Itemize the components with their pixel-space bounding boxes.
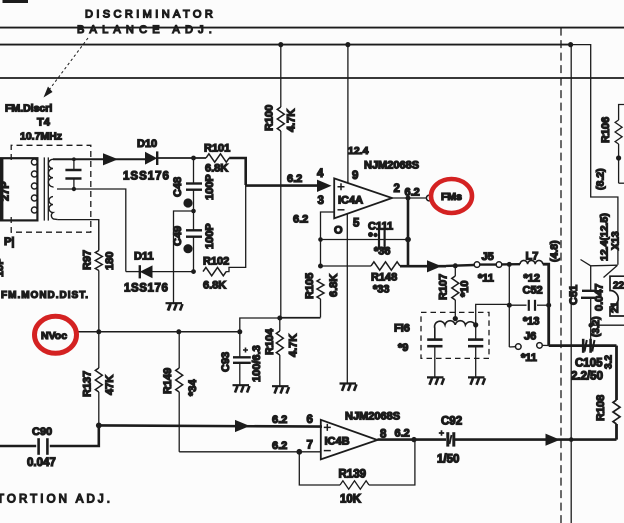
wire node line y=266 (321, 265, 372, 267)
resistor R104 (276, 318, 283, 386)
svg-text:P|: P| (4, 236, 14, 248)
svg-text:47K: 47K (104, 375, 116, 395)
svg-text:C51: C51 (568, 285, 580, 305)
wire node line to arrow (400, 265, 446, 268)
svg-text:*13: *13 (523, 316, 540, 328)
node junction FI6 coil mid (453, 316, 458, 321)
svg-text:100P: 100P (204, 223, 216, 249)
svg-text:D11: D11 (134, 251, 154, 263)
wire stepped rail x=591 to x=618 (571, 45, 618, 265)
svg-text:27P: 27P (0, 181, 12, 201)
transformer core (44, 157, 48, 220)
resistor R102 (203, 267, 226, 275)
svg-text:J6: J6 (524, 331, 536, 343)
wire corner segment near (590,265) (581, 260, 618, 266)
svg-text:6.2: 6.2 (272, 440, 287, 452)
svg-text:C92: C92 (441, 416, 462, 428)
wire winding bottom to R97 column (58, 220, 99, 250)
svg-text:R108: R108 (595, 395, 607, 421)
wire dashed section divider x=561 (560, 28, 562, 523)
node junction C48/C49 (191, 209, 196, 214)
node junction NVoc/C93/jog (237, 329, 242, 334)
resistor R108 (613, 400, 620, 440)
wire feedback line y=239.5 (321, 239, 409, 241)
svg-text:2: 2 (394, 183, 400, 195)
resistor R137 (95, 332, 102, 426)
resistor R101 (206, 154, 229, 162)
wire R101 to bus corner (229, 158, 246, 185)
svg-text:NVoc: NVoc (41, 330, 67, 342)
resistor R107 (452, 266, 459, 319)
svg-text:J5: J5 (482, 251, 494, 263)
wire output column down (407, 198, 410, 266)
node junction output/R139 (411, 437, 416, 442)
svg-text:*12: *12 (524, 273, 541, 285)
node junction R106 bottom (616, 155, 621, 160)
wire D10 to R101 (157, 157, 206, 159)
capacitor C92 electrolytic (439, 430, 454, 446)
wire IC4B output (377, 438, 446, 441)
FMs red ring (431, 179, 472, 213)
wire top rail y=27.6 (0, 27, 624, 29)
resistor R100 column (277, 45, 284, 318)
wire to connector pin 21 y=325.2 (591, 324, 624, 326)
svg-text:C105: C105 (575, 358, 603, 370)
wire IC4A minus input jog (321, 212, 335, 266)
svg-text:IC4A: IC4A (338, 195, 363, 207)
svg-text:(3.2): (3.2) (591, 316, 602, 337)
wire L7 to thick column (543, 264, 549, 345)
wire output bus y=345.6 (549, 344, 617, 347)
svg-text:*11: *11 (521, 352, 537, 364)
wire diagonal to connector (604, 265, 618, 277)
diode D10 (145, 151, 157, 165)
signal arrow to J5 (427, 260, 442, 272)
wire second rail y=44.6 (0, 44, 571, 46)
node junction R100/R104/R105 (277, 316, 282, 321)
node junction R105 top (318, 264, 323, 269)
svg-text:C111: C111 (368, 221, 393, 233)
NVoc red ring (35, 316, 77, 353)
node dot cap bottom (72, 187, 76, 191)
svg-text:R139: R139 (339, 469, 367, 481)
feedback loop R139 (299, 440, 415, 490)
svg-text:22: 22 (613, 281, 624, 292)
svg-text:*9: *9 (398, 342, 408, 354)
svg-text:12.4: 12.4 (348, 145, 369, 157)
svg-text:R106: R106 (600, 117, 612, 143)
capacitor C90 (0, 425, 99, 454)
signal arrow into IC4A (317, 180, 332, 192)
node junction minus/feedback (318, 237, 323, 242)
wire IC4A supply pin 9 from rail (347, 45, 349, 184)
svg-text:C52: C52 (523, 285, 543, 297)
node junction supply top (345, 42, 350, 47)
signal arrow after C92 (546, 434, 561, 446)
svg-text:R102: R102 (203, 256, 229, 268)
node junction NVoc/R97/R137 (96, 329, 101, 334)
svg-text:C48: C48 (172, 177, 184, 197)
svg-text:6.8K: 6.8K (203, 280, 226, 292)
svg-text:FMs: FMs (441, 191, 462, 203)
svg-text:4: 4 (317, 168, 324, 180)
svg-text:100/6.3: 100/6.3 (251, 345, 263, 382)
NVoc wire (77, 331, 240, 333)
node junction minus/R139 (296, 449, 302, 455)
leader arrow from BALANCE ADJ to T4 (44, 38, 89, 98)
svg-text:9: 9 (352, 170, 358, 182)
svg-text:T4: T4 (37, 117, 51, 129)
svg-text:*33: *33 (373, 284, 390, 296)
svg-text:1/50: 1/50 (437, 454, 459, 466)
FI6 right capacitor (468, 325, 483, 377)
svg-text:*34: *34 (187, 379, 199, 396)
FI6 left capacitor (427, 340, 442, 377)
wire J5 node down to C52 node (508, 264, 510, 347)
resistor R148 (371, 262, 400, 270)
svg-text:*36: *36 (374, 246, 391, 258)
svg-text:180: 180 (104, 252, 116, 270)
svg-text:100P: 100P (204, 174, 216, 200)
svg-text:10K: 10K (340, 494, 362, 506)
svg-text:(4.8): (4.8) (549, 240, 561, 262)
resistor R105 (280, 279, 324, 318)
wire NVoc jog up to R104 node (240, 318, 321, 332)
svg-text:BALANCE ADJ.: BALANCE ADJ. (77, 24, 217, 36)
svg-text:7: 7 (307, 440, 313, 452)
svg-text:*11: *11 (478, 273, 494, 285)
svg-text:L7: L7 (526, 251, 539, 263)
wire R102 up to 6.2 bus (226, 185, 246, 272)
capacitor C105 electrolytic on bus (583, 339, 594, 353)
svg-text:R104: R104 (264, 328, 276, 355)
wire vertical rail x=571 (570, 45, 572, 523)
jumper J5 (446, 262, 520, 268)
node junction R107 top (453, 263, 458, 268)
node junction R100 top (278, 42, 283, 47)
svg-text:O: O (334, 225, 343, 237)
node dot at cap top (72, 157, 76, 161)
svg-text:1SS176: 1SS176 (124, 283, 169, 295)
signal arrow T4 to D10 (103, 153, 118, 165)
blob below C48 (183, 198, 192, 207)
svg-text:X13: X13 (610, 231, 622, 250)
svg-text:3.2: 3.2 (604, 355, 615, 369)
capacitor C52 (509, 300, 548, 311)
svg-text:4.7K: 4.7K (288, 334, 300, 357)
transformer secondary winding lower (49, 197, 58, 220)
wire IC4A pin5 down to ground (346, 214, 348, 383)
svg-text:10.7MHz: 10.7MHz (20, 131, 62, 143)
smudge near C111 (368, 232, 378, 237)
svg-text:C93: C93 (220, 352, 232, 372)
svg-text:6.2: 6.2 (272, 414, 287, 426)
FI6 dashed box (421, 312, 489, 358)
svg-text:0.047: 0.047 (594, 283, 606, 311)
svg-text:*10: *10 (459, 280, 471, 297)
transformer secondary winding upper (48, 159, 53, 187)
capacitor C51 (581, 266, 597, 346)
svg-text:FM.MOND.DIST.: FM.MOND.DIST. (1, 290, 89, 301)
svg-text:R149: R149 (162, 368, 174, 394)
svg-text:R100: R100 (264, 105, 276, 131)
resistor R106 (615, 105, 624, 184)
jumper J6 open (509, 343, 548, 350)
signal arrow on plus line (235, 420, 250, 432)
node junction at (570.6,44.6) (568, 42, 573, 47)
transformer T4 dashed boundary (11, 145, 91, 232)
wire T4 top to D10 (53, 158, 145, 160)
svg-text:R137: R137 (82, 371, 94, 397)
node junction rail x571 and output wire (569, 437, 574, 442)
op-amp IC4A (334, 178, 392, 218)
ground below C48/C49 branch (166, 303, 183, 310)
ground below FI6 right (468, 377, 485, 384)
node junction NVoc/R149 (176, 329, 181, 334)
ground below C93 (233, 385, 250, 392)
capacitor C49 (186, 211, 202, 272)
svg-text:DISCRIMINATOR: DISCRIMINATOR (85, 9, 216, 21)
capacitor C93 electrolytic (233, 332, 251, 385)
capacitor C111 (379, 229, 385, 250)
svg-text:6.8K: 6.8K (328, 274, 340, 297)
svg-text:1SS176: 1SS176 (123, 171, 170, 183)
svg-text:C49: C49 (172, 226, 184, 246)
terminal circle FMs (426, 195, 432, 201)
svg-text:R97: R97 (82, 250, 94, 270)
svg-text:0.047: 0.047 (27, 457, 56, 469)
wire FI6 right tap up and right to C52 node (476, 304, 510, 325)
wire IC4B minus input (179, 451, 321, 453)
diode D11 (126, 265, 194, 278)
node junction D11/C49/R102 (191, 269, 196, 274)
ground below R104 (272, 386, 289, 393)
svg-text:D10: D10 (137, 138, 157, 150)
svg-text:4.7K: 4.7K (286, 109, 298, 132)
node junction C90/R137 (96, 423, 102, 429)
svg-text:R148: R148 (371, 272, 397, 284)
ceramic filter body (clipped, left edge) (0, 158, 37, 220)
node junction output (406, 196, 411, 201)
capacitor inside T4 (65, 159, 81, 189)
FI6 coil (435, 321, 476, 340)
svg-text:C90: C90 (32, 426, 52, 438)
svg-text:3: 3 (318, 195, 324, 207)
node junction J5/L7 (507, 262, 512, 267)
svg-text:10P: 10P (0, 257, 6, 277)
svg-text:TORTION ADJ.: TORTION ADJ. (0, 494, 113, 506)
svg-text:2.2/50: 2.2/50 (571, 371, 603, 383)
svg-text:5: 5 (353, 218, 360, 230)
svg-text:FM.Discri: FM.Discri (5, 103, 52, 115)
node junction C51/pin21 wire (588, 323, 593, 328)
wire cap bottom to D11 column (57, 189, 126, 272)
wire bus corner down through R108 (615, 346, 618, 400)
wire third rail y=78 (0, 77, 624, 79)
svg-text:6.2: 6.2 (287, 173, 302, 185)
svg-text:R101: R101 (204, 143, 230, 155)
node junction C52 right (546, 303, 551, 308)
svg-text:(8.2): (8.2) (595, 168, 607, 190)
wire IC4A output (392, 197, 426, 199)
svg-text:6.8K: 6.8K (205, 163, 228, 175)
svg-text:R107: R107 (438, 274, 450, 300)
wire IC4B plus input line (99, 425, 322, 426)
capacitor C48 (186, 158, 202, 211)
wire C92 to right (454, 438, 617, 441)
node junction D10/C48 (191, 156, 196, 161)
node junction FI6 coil right (473, 322, 478, 327)
resistor R149 (176, 332, 183, 452)
svg-text:6: 6 (307, 414, 313, 426)
node junction feedback/output column (405, 237, 411, 243)
black mark top edge (3, 0, 29, 3)
wire 6.2 bus into IC4A plus (246, 184, 322, 187)
svg-text:R105: R105 (304, 273, 316, 299)
svg-text:6.2: 6.2 (293, 214, 308, 226)
connector housing (610, 276, 624, 316)
svg-text:IC4B: IC4B (325, 436, 350, 448)
svg-text:6.2: 6.2 (405, 187, 420, 199)
wire branch to ground left of C49 (174, 211, 194, 303)
svg-text:FI6: FI6 (394, 323, 410, 335)
svg-text:NJM2068S: NJM2068S (345, 411, 400, 423)
blob below C49 (183, 244, 192, 253)
resistor R97 (95, 220, 102, 332)
svg-text:21: 21 (610, 301, 621, 313)
node junction C52 left (507, 303, 512, 308)
svg-text:6.2: 6.2 (395, 428, 410, 440)
ground below pin5 (340, 384, 357, 391)
ground below FI6 left (427, 377, 444, 384)
svg-text:NJM2068S: NJM2068S (364, 160, 419, 172)
inductor L7 (520, 260, 543, 264)
op-amp IC4B (321, 420, 378, 460)
